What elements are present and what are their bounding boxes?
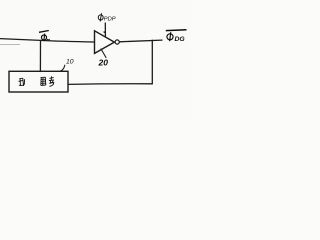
box text: char 2 xyxy=(41,77,46,85)
label phi-PDP above inverter xyxy=(98,13,103,21)
leader line to numeral 20 xyxy=(101,49,106,58)
wire: input bus from left edge to inverter input xyxy=(0,39,95,42)
wire: feedback drop at junction xyxy=(151,40,153,84)
wire: bottom return line from box to feedback drop xyxy=(68,83,152,86)
wire: inverter output line xyxy=(120,40,163,42)
svg-text:DG: DG xyxy=(175,36,186,43)
label phi-s (overbar) on input wire xyxy=(39,31,50,42)
wire: branch down from node to box xyxy=(39,40,41,71)
leader line to numeral 10 xyxy=(60,65,65,71)
inverter output bubble xyxy=(115,40,119,44)
label phi-DG (overbar) at output xyxy=(166,30,187,42)
svg-text:PDP: PDP xyxy=(104,17,116,23)
svg-text:10: 10 xyxy=(66,58,74,65)
box: driver block (numeral 10) xyxy=(9,71,68,92)
inverter U (numeral 20) triangle xyxy=(95,31,115,54)
box text: char 3 xyxy=(49,76,54,86)
svg-text:20: 20 xyxy=(98,58,109,68)
wire: PDP clock line into inverter top xyxy=(104,23,105,37)
box text: kanji-like scribbles, char 1 xyxy=(19,78,25,86)
